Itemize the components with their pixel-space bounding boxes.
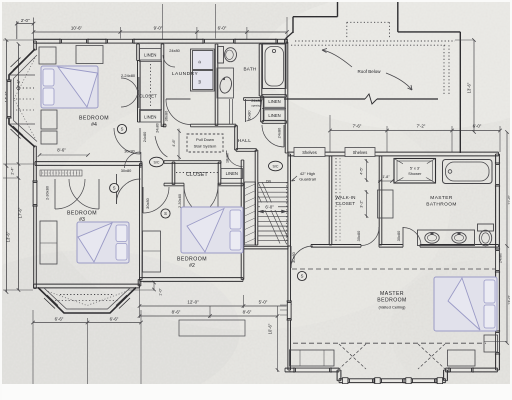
- svg-text:5' x 3': 5' x 3': [410, 165, 420, 170]
- svg-text:S: S: [113, 186, 116, 191]
- svg-text:7'-2": 7'-2": [417, 123, 426, 128]
- svg-text:24x80: 24x80: [251, 98, 262, 103]
- svg-text:6'-6": 6'-6": [55, 316, 64, 321]
- svg-text:CLOSET: CLOSET: [186, 172, 208, 178]
- svg-text:BEDROOM: BEDROOM: [67, 211, 97, 217]
- svg-text:2-30x80: 2-30x80: [45, 185, 50, 200]
- svg-text:#3: #3: [79, 217, 85, 223]
- svg-text:30x80: 30x80: [121, 168, 132, 173]
- svg-text:5'-0": 5'-0": [259, 300, 268, 305]
- svg-text:S: S: [164, 211, 167, 216]
- svg-text:10'-6": 10'-6": [71, 26, 83, 31]
- svg-text:2-24x80: 2-24x80: [121, 73, 136, 78]
- svg-text:6'-0": 6'-0": [265, 204, 274, 209]
- svg-text:12'-0": 12'-0": [187, 300, 199, 305]
- svg-text:36x80: 36x80: [163, 110, 168, 121]
- svg-text:S/C: S/C: [154, 161, 160, 165]
- svg-text:S: S: [301, 274, 304, 279]
- svg-text:opening: opening: [251, 104, 261, 108]
- svg-text:4'-6": 4'-6": [172, 139, 176, 147]
- svg-text:10'-6": 10'-6": [268, 323, 273, 334]
- svg-text:BEDROOM: BEDROOM: [79, 116, 109, 122]
- svg-text:Stair System: Stair System: [194, 144, 217, 149]
- svg-text:30x80: 30x80: [356, 230, 361, 241]
- svg-text:W: W: [197, 80, 202, 84]
- svg-text:42" High: 42" High: [300, 171, 315, 176]
- svg-text:MASTER: MASTER: [380, 291, 404, 297]
- svg-text:Shelves: Shelves: [353, 150, 368, 155]
- svg-text:Pull Down: Pull Down: [196, 137, 214, 142]
- svg-text:WALK-IN: WALK-IN: [335, 195, 355, 200]
- svg-text:8'-6": 8'-6": [243, 310, 252, 315]
- svg-text:24x80: 24x80: [499, 253, 503, 263]
- svg-text:2-30x80: 2-30x80: [177, 193, 182, 208]
- svg-text:13'-6": 13'-6": [6, 231, 11, 242]
- svg-text:LINEN: LINEN: [144, 53, 156, 58]
- svg-text:30x80: 30x80: [124, 149, 135, 154]
- svg-text:LINEN: LINEN: [226, 171, 238, 176]
- svg-text:BATHROOM: BATHROOM: [426, 201, 457, 207]
- svg-text:LINEN: LINEN: [268, 113, 280, 118]
- svg-text:30x80: 30x80: [291, 251, 296, 262]
- svg-text:6'-0": 6'-0": [218, 26, 227, 31]
- svg-text:1'-8": 1'-8": [382, 175, 390, 179]
- svg-text:Guardrail: Guardrail: [299, 176, 316, 181]
- svg-text:LAUNDRY: LAUNDRY: [172, 71, 199, 77]
- svg-text:Roof Below: Roof Below: [357, 69, 381, 74]
- svg-text:9'-0": 9'-0": [154, 26, 163, 31]
- svg-text:S/C: S/C: [273, 165, 279, 169]
- svg-text:BEDROOM: BEDROOM: [177, 257, 207, 263]
- svg-text:24x80: 24x80: [156, 123, 160, 133]
- svg-text:Shelves: Shelves: [302, 150, 317, 155]
- svg-text:17'-6": 17'-6": [18, 207, 23, 218]
- svg-text:13'-6": 13'-6": [467, 82, 472, 93]
- svg-text:MASTER: MASTER: [430, 195, 453, 201]
- svg-text:30x80: 30x80: [145, 197, 150, 208]
- svg-text:8'-6": 8'-6": [172, 310, 181, 315]
- svg-text:6'-0": 6'-0": [473, 123, 482, 128]
- svg-text:BATH: BATH: [243, 67, 256, 72]
- svg-text:1'-0": 1'-0": [159, 288, 163, 296]
- svg-text:30x80: 30x80: [396, 230, 401, 241]
- svg-text:DN: DN: [266, 179, 271, 183]
- svg-text:(Valted Ceiling): (Valted Ceiling): [378, 305, 406, 310]
- svg-text:30x80: 30x80: [248, 110, 252, 120]
- svg-text:8'-6": 8'-6": [57, 147, 66, 152]
- svg-text:#4: #4: [91, 122, 97, 128]
- svg-text:18x80: 18x80: [226, 153, 230, 163]
- svg-text:24x80: 24x80: [169, 48, 180, 53]
- svg-text:4'-5": 4'-5": [360, 167, 364, 175]
- svg-text:2'-0": 2'-0": [21, 18, 30, 23]
- svg-text:2'-4": 2'-4": [11, 167, 15, 175]
- svg-text:#2: #2: [189, 263, 195, 269]
- svg-text:CLOSET: CLOSET: [336, 201, 356, 206]
- svg-text:LINEN: LINEN: [144, 115, 156, 120]
- svg-text:3'-2": 3'-2": [360, 200, 364, 208]
- svg-text:BEDROOM: BEDROOM: [377, 298, 406, 304]
- svg-text:24x80: 24x80: [142, 131, 147, 142]
- svg-text:LINEN: LINEN: [268, 99, 280, 104]
- svg-text:6'-6": 6'-6": [110, 316, 119, 321]
- svg-text:7'-6": 7'-6": [353, 123, 362, 128]
- svg-text:Shower: Shower: [408, 171, 422, 176]
- svg-text:12'-6": 12'-6": [16, 79, 21, 90]
- svg-text:24x80: 24x80: [276, 127, 281, 138]
- svg-text:HALL: HALL: [238, 138, 252, 144]
- svg-text:S: S: [121, 127, 124, 132]
- svg-text:D: D: [197, 60, 202, 63]
- svg-text:CLOSET: CLOSET: [139, 94, 157, 99]
